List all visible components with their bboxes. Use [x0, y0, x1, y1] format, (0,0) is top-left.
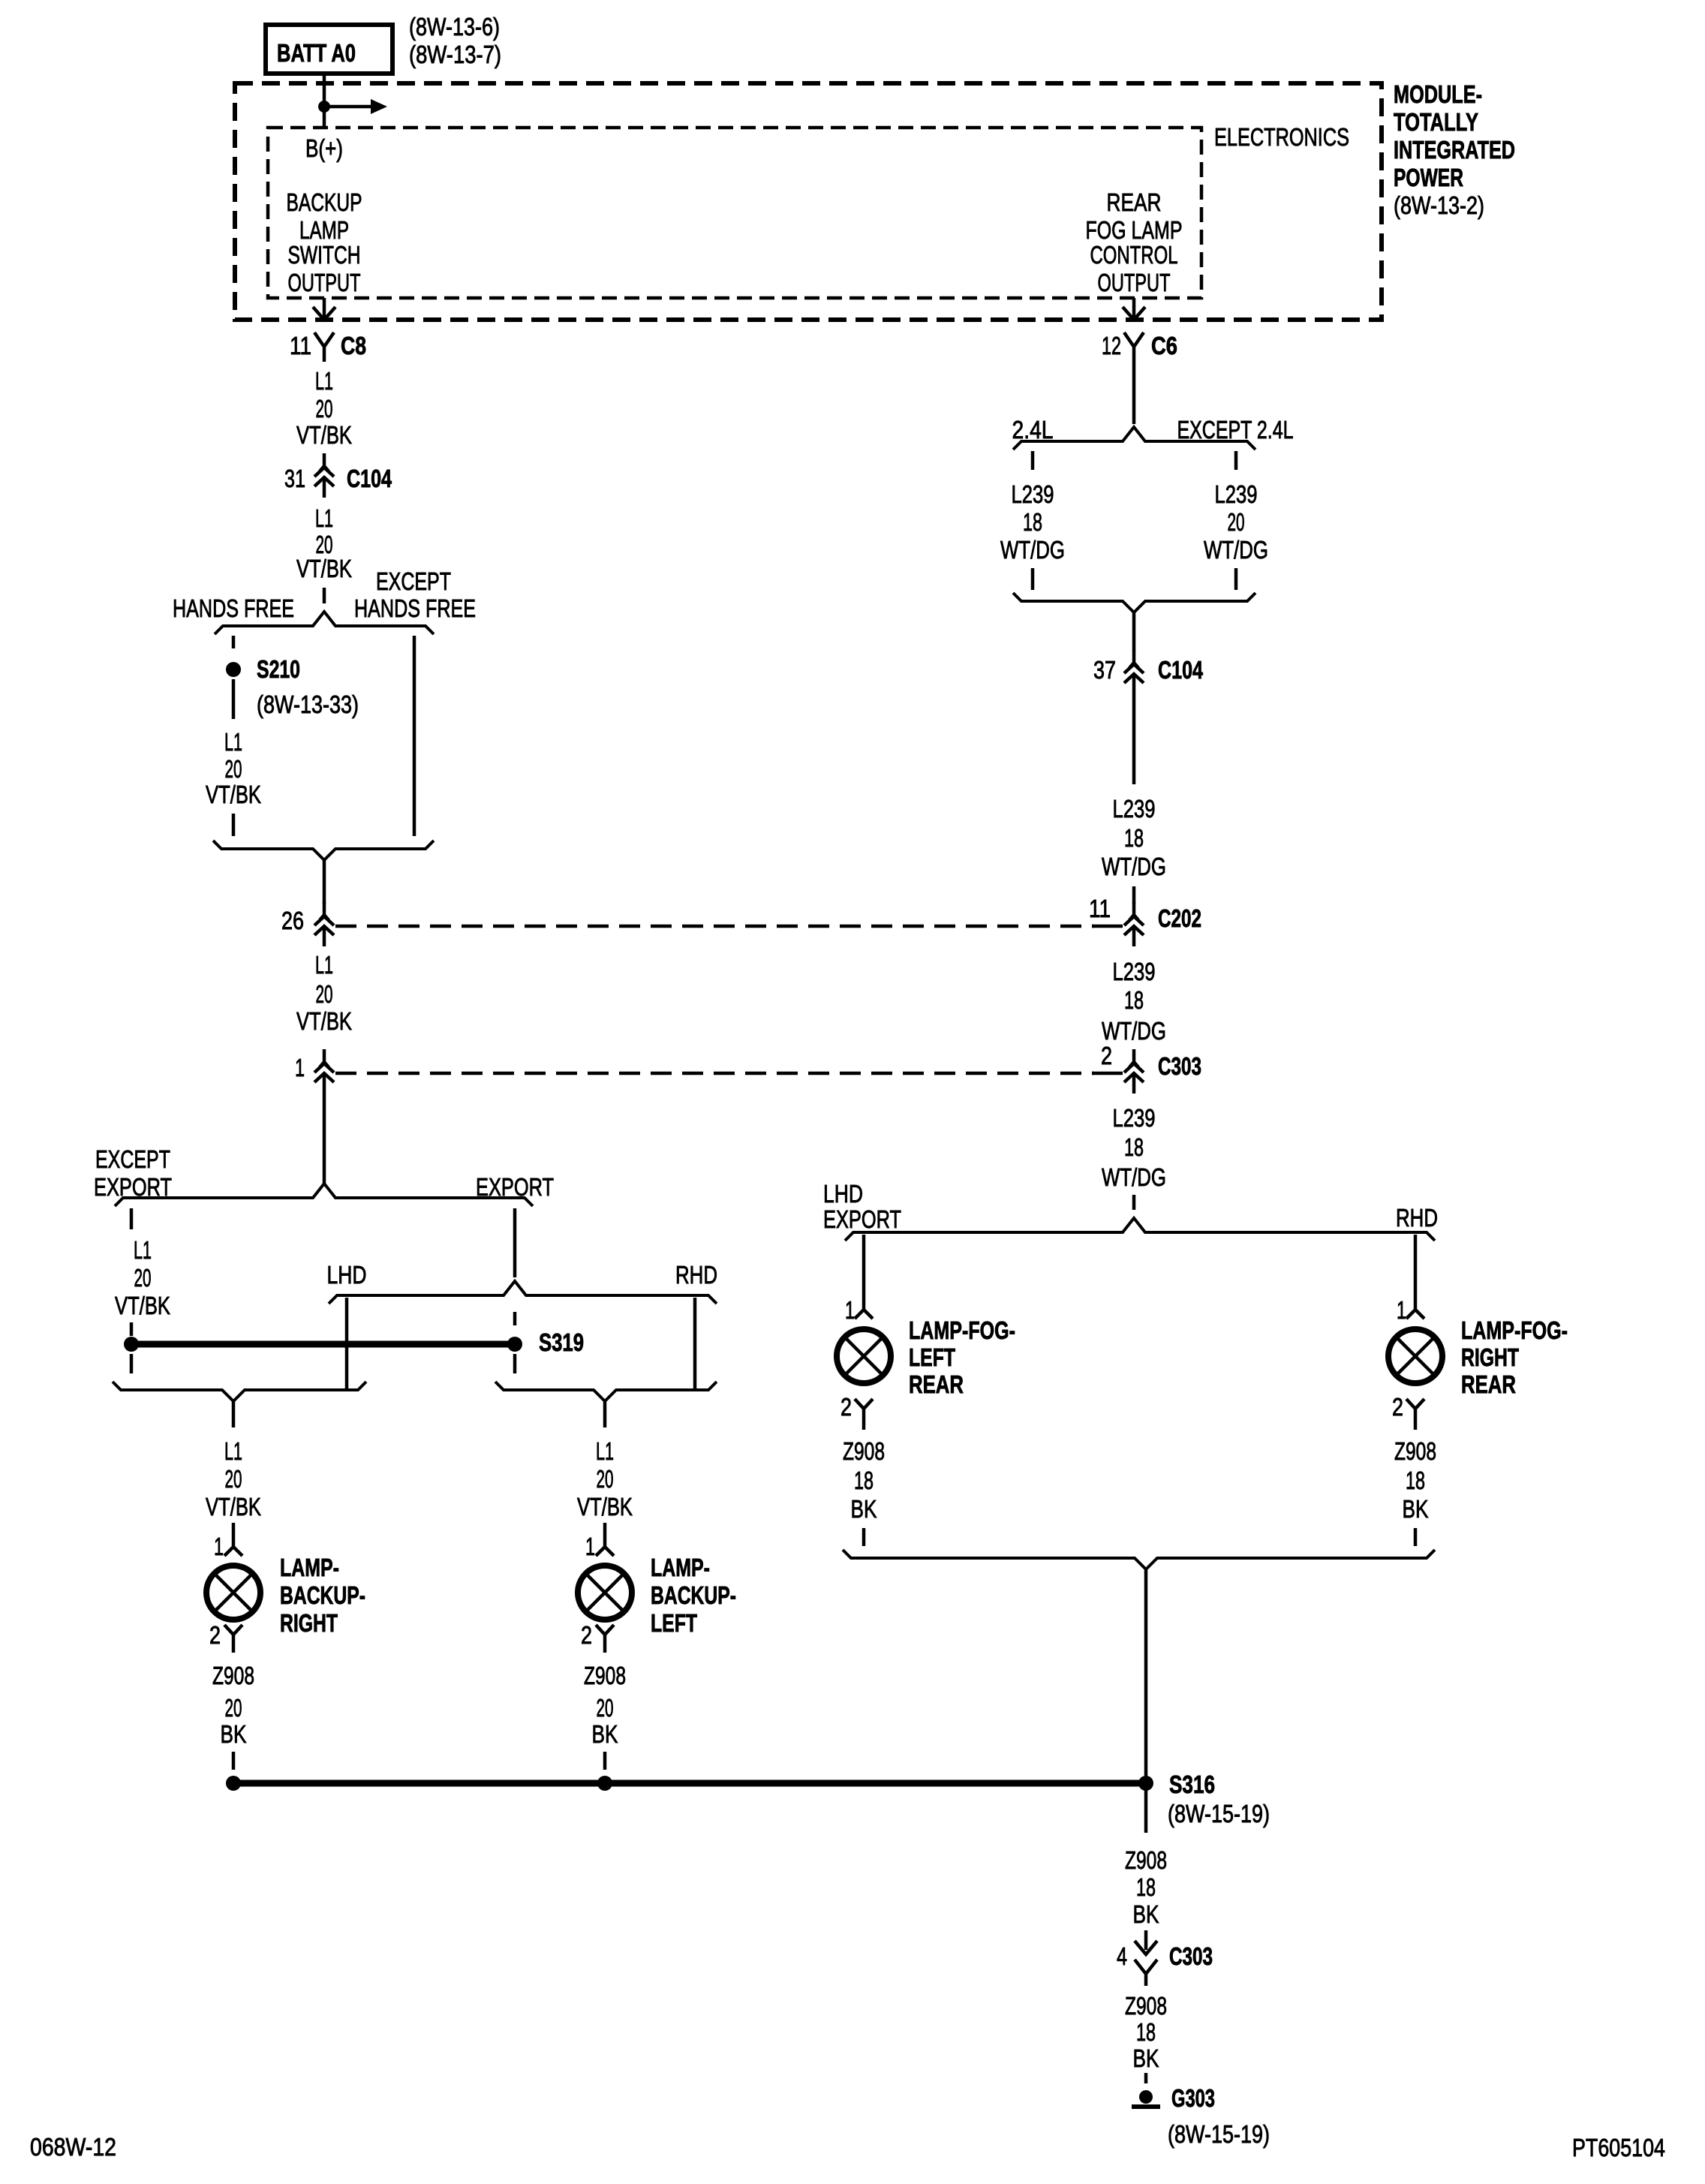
wire RHD branch: [693, 1298, 697, 1391]
svg-text:VT/BK: VT/BK: [206, 1493, 261, 1521]
svg-text:G303: G303: [1171, 2084, 1215, 2112]
svg-text:LEFT: LEFT: [651, 1609, 697, 1637]
svg-text:BACKUP: BACKUP: [287, 188, 362, 216]
svg-text:BK: BK: [1133, 1900, 1159, 1928]
wire except-hands-free branch: [413, 636, 416, 836]
svg-text:BK: BK: [1403, 1495, 1429, 1523]
wire stub below merge x=806: [603, 1402, 607, 1427]
wire down to export split: [323, 1094, 326, 1184]
merge bracket backup left options: [495, 1382, 717, 1401]
wire L239 WT/DG: [1204, 480, 1268, 564]
svg-text:BATT A0: BATT A0: [277, 39, 356, 67]
svg-text:LAMP: LAMP: [299, 216, 349, 244]
wire Z908 18 BK: [1125, 1992, 1167, 2072]
wire L239 WT/DG: [1000, 480, 1065, 564]
svg-text:20: 20: [225, 1694, 242, 1722]
svg-text:SWITCH: SWITCH: [288, 241, 361, 269]
wire stub to ground bus: [232, 1752, 236, 1770]
svg-text:C6: C6: [1151, 332, 1177, 359]
svg-text:EXCEPT: EXCEPT: [376, 567, 451, 595]
svg-text:REAR: REAR: [1461, 1370, 1516, 1398]
svg-text:S316: S316: [1169, 1770, 1215, 1798]
svg-text:20: 20: [316, 980, 333, 1008]
wire Z908 18 BK: [1394, 1437, 1436, 1523]
svg-text:31: 31: [284, 465, 305, 492]
wire stub to merge: [232, 814, 236, 836]
svg-text:18: 18: [1023, 508, 1042, 536]
wire L1 20 VT/BK: [206, 1437, 261, 1521]
svg-text:WT/DG: WT/DG: [1000, 536, 1065, 564]
wire stub to fog merge: [862, 1528, 866, 1546]
wire Z908 20 BK: [584, 1662, 626, 1748]
svg-text:MODULE-: MODULE-: [1394, 80, 1482, 108]
lamp backup right pin 1: [224, 1523, 242, 1556]
wire LHD branch: [345, 1298, 349, 1391]
svg-text:LAMP-FOG-: LAMP-FOG-: [1461, 1316, 1568, 1344]
svg-text:068W-12: 068W-12: [30, 2133, 116, 2161]
split bracket EXCEPT EXPORT / EXPORT: [115, 1184, 533, 1206]
junction node on ground bus: [597, 1776, 612, 1791]
wire stub 2.4L branch x=1376: [1031, 451, 1035, 470]
svg-text:BK: BK: [592, 1720, 618, 1748]
lamp LAMP-FOG-RIGHT REAR: [1388, 1329, 1442, 1383]
svg-text:EXCEPT: EXCEPT: [95, 1145, 170, 1173]
svg-text:S210: S210: [257, 655, 300, 683]
output arrow rear fog lamp control: [1132, 298, 1136, 318]
svg-text:EXPORT: EXPORT: [94, 1173, 172, 1201]
svg-text:C104: C104: [1158, 656, 1203, 684]
dashed link wire C202: [335, 925, 1094, 928]
svg-text:VT/BK: VT/BK: [115, 1292, 170, 1319]
svg-text:C303: C303: [1169, 1942, 1213, 1970]
junction node on ground bus: [226, 1776, 241, 1791]
svg-text:Z908: Z908: [843, 1437, 885, 1465]
svg-text:2: 2: [209, 1621, 221, 1649]
svg-text:L239: L239: [1113, 795, 1156, 823]
svg-text:HANDS FREE: HANDS FREE: [354, 594, 476, 622]
svg-text:VT/BK: VT/BK: [296, 555, 352, 582]
svg-text:ELECTRONICS: ELECTRONICS: [1214, 123, 1349, 151]
wire stub to merge: [1234, 568, 1238, 590]
connector C6 pin 12: [1124, 332, 1144, 362]
splice S319: [507, 1337, 522, 1352]
svg-text:1: 1: [1397, 1296, 1406, 1324]
svg-text:OUTPUT: OUTPUT: [288, 269, 361, 296]
connector C8 pin 11: [314, 332, 334, 362]
thick ground bus wire: [233, 1780, 1146, 1787]
arrow feed to other circuits: [324, 105, 374, 109]
svg-text:(8W-15-19): (8W-15-19): [1168, 1800, 1270, 1828]
dashed wire below node: [130, 1354, 134, 1373]
svg-text:BK: BK: [851, 1495, 877, 1523]
lamp fog left pin 2: [855, 1399, 873, 1430]
svg-text:B(+): B(+): [305, 134, 343, 162]
svg-text:2: 2: [581, 1621, 592, 1649]
lamp backup left pin 1: [596, 1523, 614, 1556]
svg-text:OUTPUT: OUTPUT: [1098, 269, 1171, 296]
connector C303 pin 1: [314, 1049, 334, 1094]
svg-text:37: 37: [1093, 656, 1116, 684]
wire L1 20 VT/BK: [296, 951, 352, 1035]
svg-text:L1: L1: [315, 367, 333, 395]
svg-text:INTEGRATED: INTEGRATED: [1394, 136, 1515, 164]
wire L1 20 VT/BK: [115, 1236, 170, 1319]
svg-text:L1: L1: [596, 1437, 614, 1465]
wire L1 20 VT/BK: [577, 1437, 633, 1521]
svg-text:18: 18: [1124, 1133, 1144, 1161]
svg-text:C8: C8: [341, 332, 366, 359]
splice S316: [1138, 1776, 1153, 1791]
svg-text:WT/DG: WT/DG: [1102, 1163, 1166, 1191]
connector C303 pin 2: [1124, 1049, 1144, 1094]
lamp LAMP-FOG-LEFT REAR: [837, 1329, 891, 1383]
inner dashed box ELECTRONICS: [268, 128, 1201, 298]
svg-text:RHD: RHD: [675, 1261, 717, 1289]
svg-text:RIGHT: RIGHT: [1461, 1343, 1519, 1371]
wire L1 20 VT/BK: [296, 367, 352, 449]
connector C202 pin 11: [1124, 902, 1144, 946]
svg-text:VT/BK: VT/BK: [577, 1493, 633, 1521]
wire L1 20 VT/BK: [206, 728, 261, 808]
split bracket LHD / RHD: [329, 1281, 717, 1304]
svg-text:26: 26: [281, 907, 304, 934]
label REAR FOG LAMP CONTROL OUTPUT: [1086, 188, 1183, 296]
svg-text:BACKUP-: BACKUP-: [651, 1581, 736, 1609]
lamp fog left pin 1: [855, 1310, 873, 1319]
svg-text:EXPORT: EXPORT: [823, 1205, 901, 1233]
wire stub to ground bus: [603, 1752, 607, 1770]
splice S210: [226, 662, 241, 677]
svg-text:L239: L239: [1113, 958, 1156, 985]
wire Z908 18 BK: [1125, 1846, 1167, 1928]
wire stub to fog merge: [1414, 1528, 1418, 1546]
wire BATT A0 down into module: [323, 74, 326, 128]
battery feed box BATT A0: [266, 25, 392, 74]
wire export branch: [513, 1208, 517, 1277]
dashed link wire C303: [335, 1072, 1094, 1075]
svg-text:L239: L239: [1113, 1104, 1156, 1132]
svg-text:18: 18: [854, 1467, 874, 1494]
svg-text:(8W-15-19): (8W-15-19): [1168, 2120, 1270, 2148]
wire stub above hands-free split: [323, 588, 326, 603]
svg-text:BACKUP-: BACKUP-: [280, 1581, 365, 1609]
wire fog right branch: [1414, 1235, 1418, 1310]
dashed stub above S319: [513, 1312, 517, 1325]
svg-text:11: 11: [290, 332, 311, 359]
svg-text:Z908: Z908: [1125, 1846, 1167, 1874]
svg-text:2.4L: 2.4L: [1012, 416, 1054, 444]
svg-text:18: 18: [1136, 2018, 1156, 2046]
svg-text:Z908: Z908: [584, 1662, 626, 1689]
svg-text:WT/DG: WT/DG: [1204, 536, 1268, 564]
svg-text:18: 18: [1406, 1467, 1425, 1494]
svg-text:1: 1: [845, 1296, 855, 1324]
connector C104 pin 37: [1124, 650, 1144, 694]
wire stub to fog split: [1132, 1195, 1136, 1210]
svg-text:VT/BK: VT/BK: [296, 1007, 352, 1035]
svg-text:20: 20: [597, 1694, 614, 1722]
wire stub to merge: [1031, 568, 1035, 590]
svg-text:(8W-13-7): (8W-13-7): [409, 41, 501, 68]
lamp fog right pin 2: [1406, 1399, 1424, 1430]
svg-text:WT/DG: WT/DG: [1102, 853, 1166, 880]
svg-text:2: 2: [1101, 1042, 1112, 1069]
lamp fog right pin 1: [1406, 1310, 1424, 1319]
wire to connector C202: [323, 860, 326, 904]
svg-text:LAMP-FOG-: LAMP-FOG-: [909, 1316, 1015, 1344]
svg-text:LHD: LHD: [327, 1261, 367, 1289]
wire hands-free branch: [232, 636, 236, 648]
wire stub below merge x=311: [232, 1402, 236, 1427]
svg-text:Z908: Z908: [1394, 1437, 1436, 1465]
label BACKUP LAMP SWITCH OUTPUT: [287, 188, 362, 296]
svg-text:S319: S319: [539, 1328, 584, 1356]
svg-text:1: 1: [214, 1533, 224, 1560]
module box TIPM outer dashed: [235, 83, 1382, 320]
svg-text:(8W-13-6): (8W-13-6): [409, 13, 500, 41]
junction node except-export: [124, 1337, 139, 1352]
svg-text:20: 20: [134, 1264, 152, 1292]
split bracket LHD EXPORT / RHD: [845, 1218, 1435, 1241]
wire L239 18 WT/DG: [1102, 958, 1166, 1045]
svg-text:BK: BK: [1133, 2044, 1159, 2072]
svg-text:11: 11: [1089, 895, 1111, 922]
merge bracket hands-free options: [213, 841, 434, 860]
svg-text:Z908: Z908: [212, 1662, 254, 1689]
svg-text:VT/BK: VT/BK: [296, 421, 352, 449]
svg-text:RIGHT: RIGHT: [280, 1609, 338, 1637]
svg-text:PT605104: PT605104: [1572, 2134, 1665, 2161]
wire to C104: [1132, 612, 1136, 651]
split bracket HANDS FREE / EXCEPT HANDS FREE: [215, 612, 434, 634]
svg-text:BK: BK: [221, 1720, 247, 1748]
svg-text:LAMP-: LAMP-: [280, 1554, 339, 1581]
wire below S210: [232, 679, 236, 719]
wire L1 20 VT/BK: [296, 504, 352, 582]
svg-text:(8W-13-33): (8W-13-33): [257, 690, 359, 718]
wire down to S316: [1144, 1570, 1148, 1783]
svg-text:4: 4: [1117, 1942, 1127, 1970]
wire stub: [1132, 886, 1136, 904]
svg-text:20: 20: [225, 755, 242, 783]
dashed stub below S319: [513, 1354, 517, 1373]
svg-text:HANDS FREE: HANDS FREE: [173, 594, 294, 622]
svg-text:2: 2: [840, 1393, 852, 1421]
svg-text:C104: C104: [347, 465, 392, 492]
svg-text:1: 1: [585, 1533, 595, 1560]
svg-text:L1: L1: [315, 504, 333, 532]
dashed wire except-export branch: [130, 1208, 134, 1229]
svg-text:LHD: LHD: [823, 1180, 863, 1208]
svg-text:EXPORT: EXPORT: [476, 1173, 554, 1201]
lamp backup left pin 2: [596, 1625, 614, 1653]
svg-text:L1: L1: [315, 951, 333, 979]
split bracket 2.4L / EXCEPT 2.4L: [1013, 427, 1255, 450]
svg-text:C303: C303: [1158, 1052, 1201, 1080]
connector C202 pin 26: [314, 902, 334, 946]
merge bracket fog lamps: [843, 1550, 1435, 1569]
svg-text:CONTROL: CONTROL: [1090, 241, 1178, 269]
wire Z908 18 BK: [843, 1437, 885, 1523]
svg-text:18: 18: [1136, 1873, 1156, 1901]
svg-text:18: 18: [1124, 986, 1144, 1014]
svg-text:REAR: REAR: [1107, 188, 1162, 216]
svg-text:18: 18: [1124, 824, 1144, 852]
connector C303 pin 4: [1117, 1930, 1213, 1986]
svg-text:L239: L239: [1012, 480, 1054, 508]
merge bracket backup right options: [113, 1382, 366, 1401]
wire fog left branch: [862, 1235, 866, 1310]
svg-text:12: 12: [1102, 332, 1121, 359]
junction node on battery feed: [318, 101, 330, 113]
svg-text:C202: C202: [1158, 904, 1201, 932]
connector C104 pin 31: [314, 453, 334, 498]
wire below S316: [1144, 1790, 1148, 1833]
svg-text:EXCEPT 2.4L: EXCEPT 2.4L: [1177, 416, 1294, 444]
lamp LAMP-BACKUP-LEFT: [578, 1566, 632, 1620]
lamp LAMP-BACKUP-RIGHT: [206, 1566, 260, 1620]
wire stub to ground: [1144, 2073, 1148, 2083]
output arrow backup lamp switch: [323, 298, 326, 318]
wire down to engine split: [1132, 362, 1136, 424]
svg-text:POWER: POWER: [1394, 164, 1463, 191]
wire down: [1132, 694, 1136, 784]
svg-text:20: 20: [1228, 508, 1245, 536]
svg-text:REAR: REAR: [909, 1370, 964, 1398]
svg-text:L1: L1: [224, 1437, 242, 1465]
svg-text:FOG LAMP: FOG LAMP: [1086, 216, 1183, 244]
svg-text:1: 1: [295, 1054, 305, 1081]
wire Z908 20 BK: [212, 1662, 254, 1748]
svg-text:L1: L1: [224, 728, 242, 756]
label MODULE-TOTALLY INTEGRATED POWER: [1394, 80, 1515, 219]
svg-text:WT/DG: WT/DG: [1102, 1017, 1166, 1045]
svg-text:RHD: RHD: [1396, 1204, 1438, 1232]
svg-text:L239: L239: [1215, 480, 1258, 508]
svg-text:2: 2: [1392, 1393, 1403, 1421]
svg-text:TOTALLY: TOTALLY: [1394, 108, 1478, 136]
svg-text:L1: L1: [134, 1236, 152, 1264]
lamp backup right pin 2: [224, 1625, 242, 1653]
wire stub 2.4L branch x=1647: [1234, 451, 1238, 470]
svg-text:VT/BK: VT/BK: [206, 781, 261, 808]
dashed wire to splice: [130, 1322, 134, 1336]
svg-text:LEFT: LEFT: [909, 1343, 955, 1371]
svg-text:Z908: Z908: [1125, 1992, 1167, 2020]
svg-text:20: 20: [225, 1465, 242, 1493]
svg-text:LAMP-: LAMP-: [651, 1554, 710, 1581]
wire L239 18 WT/DG: [1102, 795, 1166, 880]
svg-text:(8W-13-2): (8W-13-2): [1394, 191, 1484, 219]
merge bracket engine options: [1013, 593, 1255, 612]
ground G303: [1132, 2090, 1160, 2107]
svg-text:20: 20: [597, 1465, 614, 1493]
wire L239 18 WT/DG: [1102, 1104, 1166, 1191]
thick tie wire S319: [131, 1341, 515, 1348]
svg-text:20: 20: [316, 395, 333, 423]
